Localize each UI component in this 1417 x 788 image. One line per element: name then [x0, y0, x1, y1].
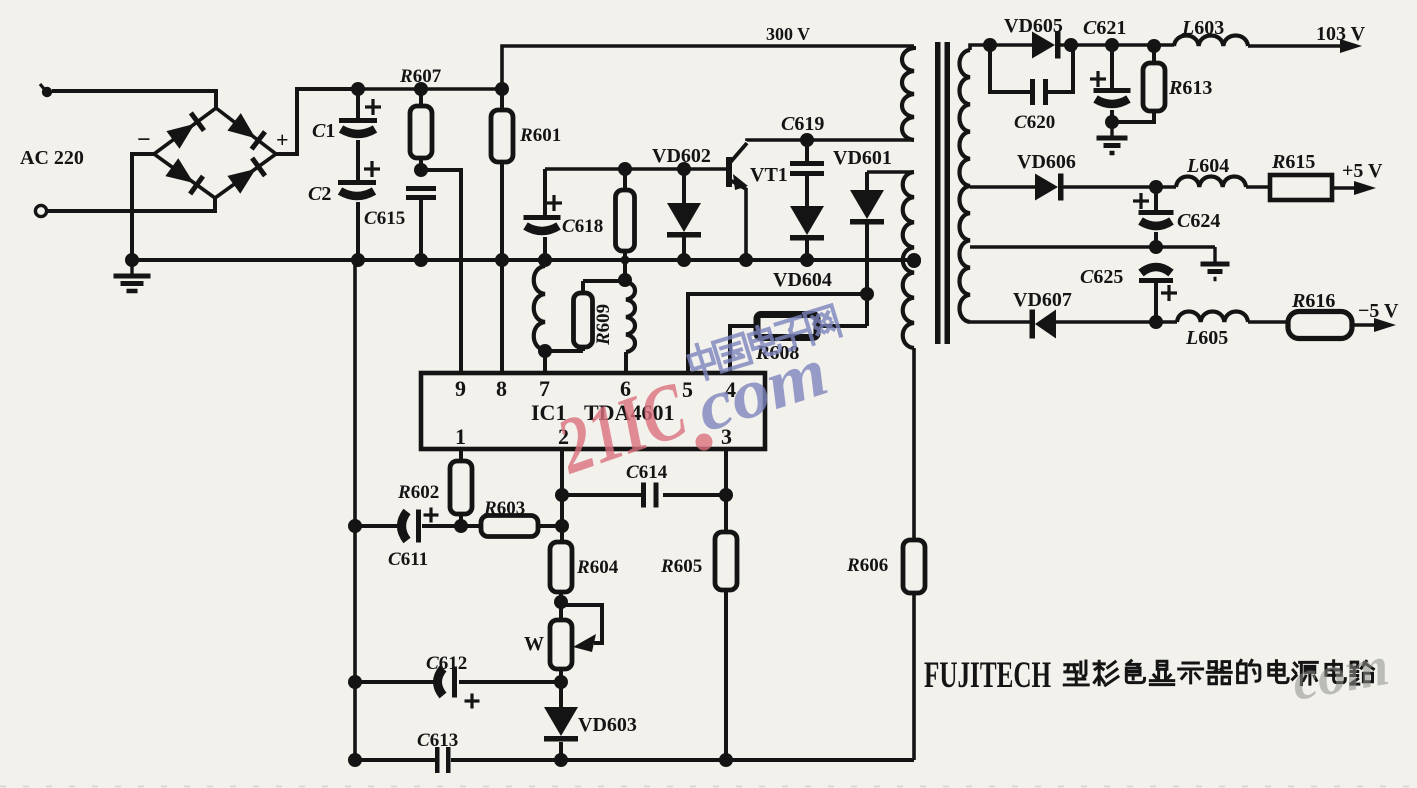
svg-text:R603: R603: [483, 498, 525, 519]
transformer secondary winding: [960, 45, 991, 322]
capacitor C615: [406, 186, 436, 200]
node dot R609 top junction: [618, 273, 632, 287]
label R616: [1291, 290, 1335, 312]
resistor R613: [1112, 46, 1165, 122]
label R607: [399, 66, 442, 87]
svg-text:−5 V: −5 V: [1358, 300, 1399, 322]
node dot C612/VD603: [554, 675, 568, 689]
label +5 V: [1342, 160, 1383, 182]
svg-text:VD604: VD604: [773, 269, 832, 291]
label VD603: [578, 714, 637, 736]
wire VD606 rail: [970, 185, 1176, 189]
node dot pin2 C614 row: [555, 488, 569, 502]
svg-text:C625: C625: [1080, 266, 1123, 288]
svg-text:L604: L604: [1186, 155, 1229, 177]
svg-text:300 V: 300 V: [766, 24, 810, 44]
svg-text:VD607: VD607: [1013, 289, 1072, 311]
pin number 2: [558, 424, 569, 449]
wire feedback winding to VD601: [867, 170, 914, 174]
wire R609 bottom link: [545, 347, 583, 351]
bridge diode upper-left: [166, 111, 206, 148]
node dot L605 tap: [1149, 315, 1163, 329]
wire rail to R607: [419, 89, 423, 106]
svg-text:9: 9: [455, 376, 466, 401]
diode VD606: [1035, 174, 1064, 201]
scan edge noise: [0, 786, 1417, 788]
label VD604: [773, 269, 832, 291]
wire IC pin 5: [688, 294, 867, 373]
inductor L604: [1176, 177, 1246, 188]
wire AC live to bridge top: [52, 91, 216, 108]
capacitor C613: [435, 747, 451, 773]
wire L605 to R616: [1248, 320, 1288, 324]
pin number 6: [620, 376, 631, 401]
label R601: [519, 125, 561, 146]
capacitor C611: [402, 508, 439, 543]
ground symbol 103V: [1097, 122, 1128, 153]
resistor R606: [903, 540, 925, 593]
svg-text:7: 7: [539, 376, 550, 401]
svg-text:+: +: [276, 127, 289, 152]
node dots on primary ground bus: [125, 253, 921, 267]
node dot pin2 R603: [555, 519, 569, 533]
wire R602 to C611 node: [459, 514, 463, 526]
svg-text:C619: C619: [781, 113, 824, 135]
svg-text:−: −: [137, 127, 151, 153]
bridge diode lower-right: [227, 157, 267, 194]
label VD606: [1017, 151, 1076, 173]
svg-text:VD601: VD601: [833, 147, 892, 169]
wire rail to R601: [500, 89, 504, 110]
node dot bottom bus left: [348, 753, 362, 767]
wire IC pin 2: [560, 449, 564, 542]
wire 103V output arrow: [1248, 39, 1362, 53]
svg-text:R606: R606: [846, 555, 888, 576]
wire node to IC pin 9: [421, 170, 461, 373]
label C619: [781, 113, 824, 135]
svg-text:1: 1: [455, 424, 466, 449]
wire AC neutral to bridge bottom: [47, 197, 215, 211]
pin number 3: [721, 424, 732, 449]
svg-text:8: 8: [496, 376, 507, 401]
wire R601 to IC pin 8: [500, 162, 504, 373]
svg-text:VT1: VT1: [750, 164, 788, 186]
resistor R608: [757, 315, 817, 338]
label R604: [576, 557, 619, 578]
wire C2 to bus: [356, 202, 360, 260]
ground symbol primary: [114, 260, 151, 291]
wire R608 to VD601 column: [817, 294, 867, 326]
diode VD603: [544, 682, 578, 760]
label bridge minus: [137, 127, 151, 153]
wire R604 to W: [559, 592, 563, 620]
wire VT1 base rail: [545, 167, 726, 171]
diode VD605: [1032, 32, 1061, 59]
inductor L603: [1174, 36, 1248, 47]
transistor VT1: [728, 140, 807, 260]
svg-text:103 V: 103 V: [1316, 23, 1366, 45]
pin number 1: [455, 424, 466, 449]
svg-text:C611: C611: [388, 549, 428, 570]
svg-text:W: W: [524, 633, 544, 655]
label C614: [626, 462, 668, 483]
wire L604 to R615: [1246, 185, 1270, 189]
node dot C624 tap: [1149, 180, 1163, 194]
node dot pin3 C614 row: [719, 488, 733, 502]
label C615: [364, 208, 405, 229]
wire VD607 rail: [970, 320, 1177, 324]
svg-text:C612: C612: [426, 653, 467, 674]
svg-text:C618: C618: [562, 216, 603, 237]
label VD601: [833, 147, 892, 169]
node dot sec top left: [983, 38, 997, 52]
left rail: [353, 260, 357, 760]
svg-text:R613: R613: [1168, 77, 1212, 99]
node dot left rail C612 row: [348, 675, 362, 689]
transformer primary winding top: [902, 46, 914, 140]
svg-text:C624: C624: [1177, 210, 1220, 232]
node dot R613 tap: [1147, 39, 1161, 53]
bridge diode upper-right: [227, 113, 267, 151]
node dot C611/R603: [454, 519, 468, 533]
pin number 9: [455, 376, 466, 401]
label L603: [1181, 17, 1224, 39]
svg-text:R607: R607: [399, 66, 442, 87]
wire IC pin 3: [724, 449, 728, 532]
bridge diode lower-left: [165, 158, 205, 195]
label L605: [1185, 327, 1228, 349]
bridge rectifier outline: [154, 108, 276, 198]
wire primary ground bus: [132, 258, 914, 262]
wire bridge minus to ground bus: [132, 154, 154, 260]
resistor R602: [450, 461, 472, 514]
svg-text:R602: R602: [397, 482, 439, 503]
resistor R601: [491, 110, 513, 162]
svg-text:C613: C613: [417, 730, 458, 751]
pin number 4: [725, 377, 736, 402]
svg-text:R605: R605: [660, 556, 702, 577]
svg-text:FUJITECH: FUJITECH: [924, 655, 1051, 696]
node dot bottom bus VD603: [554, 753, 568, 767]
inductor feedback small left: [534, 260, 545, 373]
label R605: [660, 556, 702, 577]
capacitor C618: [524, 195, 563, 231]
capacitor C620 loop: [990, 45, 1073, 105]
node dot bottom bus R605: [719, 753, 733, 767]
label C613: [417, 730, 458, 751]
label AC 220: [20, 147, 84, 169]
wire DC top rail: [297, 87, 502, 91]
svg-text:L603: L603: [1181, 17, 1224, 39]
op-amp IC1 TDA4601 box: [421, 373, 765, 449]
label C611: [388, 549, 428, 570]
svg-text:R615: R615: [1271, 151, 1315, 173]
label VD605: [1004, 15, 1063, 37]
node dot feedback winding bus tap: [907, 254, 921, 268]
label R602: [397, 482, 439, 503]
svg-text:R601: R601: [519, 125, 561, 146]
label VD602: [652, 145, 711, 167]
node dot left rail C611 row: [348, 519, 362, 533]
resistor series pin6: [616, 169, 635, 279]
node dot pin5 wire junction: [860, 287, 874, 301]
label C612: [426, 653, 467, 674]
node dot C1 tap: [351, 82, 365, 96]
node dot VD602 top: [677, 162, 691, 176]
ground symbol 5V: [1201, 264, 1230, 279]
wire +5V output arrow: [1332, 181, 1376, 195]
node dot R607 tap: [414, 82, 428, 96]
capacitor C612: [438, 667, 480, 709]
pin number 7: [539, 376, 550, 401]
node dot R601 tap: [495, 82, 509, 96]
svg-text:+5 V: +5 V: [1342, 160, 1383, 182]
resistor R603: [461, 516, 562, 537]
AC input terminal top: [40, 84, 52, 97]
svg-text:VD602: VD602: [652, 145, 711, 167]
label C618: [562, 216, 603, 237]
svg-text:R616: R616: [1291, 290, 1335, 312]
label C2: [308, 183, 331, 205]
label VD607: [1013, 289, 1072, 311]
label -5 V: [1358, 300, 1399, 322]
resistor R605: [715, 532, 737, 590]
pin number 8: [496, 376, 507, 401]
label R608: [755, 342, 799, 364]
svg-text:AC 220: AC 220: [20, 147, 84, 169]
label L604: [1186, 155, 1229, 177]
label R613: [1168, 77, 1212, 99]
diode VD601: [850, 172, 884, 325]
wire IC pin 4: [730, 326, 757, 373]
wire -5V output arrow: [1352, 318, 1396, 332]
capacitor C624: [1133, 187, 1174, 247]
svg-text:R604: R604: [576, 557, 619, 578]
svg-text:VD605: VD605: [1004, 15, 1063, 37]
label C1: [312, 120, 335, 142]
IC1 label: [531, 400, 674, 425]
svg-text:C621: C621: [1083, 17, 1126, 39]
svg-text:VD606: VD606: [1017, 151, 1076, 173]
node dot W top: [554, 595, 568, 609]
resistor R604: [550, 542, 572, 592]
resistor R616: [1288, 312, 1352, 339]
label W: [524, 633, 544, 655]
transformer primary feedback winding: [903, 172, 914, 348]
wire bottom bus: [355, 593, 914, 760]
capacitor C1: [339, 99, 381, 134]
node dot VD605 cathode: [1064, 38, 1078, 52]
label R606: [846, 555, 888, 576]
capacitor C625: [1139, 267, 1177, 322]
svg-text:C615: C615: [364, 208, 405, 229]
transformer core: [935, 42, 950, 344]
wire C612 row: [355, 680, 561, 684]
wire collector rail to winding: [807, 138, 914, 142]
label VT1: [750, 164, 788, 186]
node dot R607/C615/pin9: [414, 163, 428, 177]
capacitor C614: [641, 483, 659, 508]
capacitor C2: [338, 161, 380, 196]
svg-text:VD603: VD603: [578, 714, 637, 736]
label R603: [483, 498, 525, 519]
resistor R607: [410, 106, 432, 158]
node dot C621 bottom: [1105, 115, 1119, 129]
potentiometer W body: [550, 620, 572, 669]
diode VD602: [667, 169, 701, 260]
label C620: [1014, 112, 1055, 133]
wire 300V rail: [502, 46, 914, 89]
svg-text:L605: L605: [1185, 327, 1228, 349]
label C625: [1080, 266, 1123, 288]
wire R605 to bottom bus: [724, 590, 728, 760]
wire bridge plus output to top rail: [276, 89, 358, 154]
label 103 V: [1316, 23, 1366, 45]
wire C618 to bus: [543, 237, 547, 260]
label 300 V: [766, 24, 810, 44]
wire C611 row: [355, 524, 461, 528]
node dot C621 tap: [1105, 38, 1119, 52]
wire R606 to feedback winding: [912, 348, 916, 540]
inductor small right pin6: [626, 282, 635, 373]
label C624: [1177, 210, 1220, 232]
label C621: [1083, 17, 1126, 39]
label R609 rotated: [593, 304, 614, 346]
wire C614 row: [562, 493, 726, 497]
AC input terminal bottom: [35, 205, 46, 216]
svg-text:C1: C1: [312, 120, 335, 142]
watermark 21IC.com: [546, 304, 841, 491]
wire base rail to C618: [543, 169, 547, 215]
resistor R609: [574, 281, 593, 347]
resistor R615: [1270, 175, 1332, 200]
wire secondary mid rail: [970, 247, 1215, 262]
pin number 5: [682, 377, 693, 402]
wire secondary top rail: [990, 43, 1174, 47]
label bridge plus: [276, 127, 289, 152]
decorative grey swirl: [1287, 635, 1393, 713]
inductor L605: [1177, 312, 1248, 323]
svg-text:R609: R609: [593, 304, 614, 346]
svg-text:C620: C620: [1014, 112, 1055, 133]
wire W to C612 node: [559, 669, 563, 682]
node dot series-resistor top: [618, 162, 632, 176]
diode VD604: [790, 176, 824, 260]
node dot pin7 junction: [538, 344, 552, 358]
potentiometer wiper: [561, 605, 602, 652]
svg-text:C2: C2: [308, 183, 331, 205]
capacitor C619: [790, 140, 824, 176]
wire R607 to node: [419, 158, 423, 172]
wire top rail to C1: [356, 89, 360, 118]
wire IC pin 1: [459, 449, 463, 461]
label R615: [1271, 151, 1315, 173]
wire C1 to C2: [356, 140, 360, 180]
wire R609 top link: [583, 279, 625, 283]
wire C615 to bus: [419, 200, 423, 260]
node dot VT1 collector / C619: [800, 133, 814, 147]
title text FUJITECH color display power supply circuit: [924, 655, 1373, 696]
node dot mid rail C625: [1149, 240, 1163, 254]
diode VD607: [1030, 310, 1057, 339]
capacitor C621: [1090, 45, 1131, 122]
